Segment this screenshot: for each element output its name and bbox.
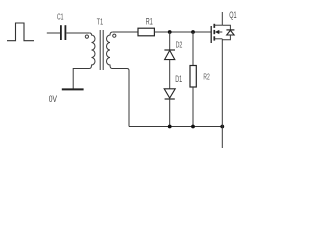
svg-text:R2: R2 bbox=[203, 72, 209, 82]
wire R1 to gate node bbox=[154, 31, 211, 33]
bottom rail bbox=[129, 126, 222, 128]
transformer T1 core bbox=[99, 30, 101, 70]
node junction D2 bbox=[168, 30, 172, 34]
body diode top bracket bbox=[222, 25, 230, 30]
rail junction R2 bbox=[191, 125, 195, 129]
svg-text:C1: C1 bbox=[57, 11, 64, 21]
diode D2 bbox=[164, 50, 175, 60]
wire D1 to rail bbox=[169, 99, 171, 127]
node junction R2 bbox=[191, 30, 195, 34]
capacitor C1 bbox=[61, 25, 66, 40]
resistor R2 bbox=[190, 66, 196, 88]
svg-text:D1: D1 bbox=[175, 74, 182, 84]
mosfet Q1 arrow bbox=[215, 30, 219, 34]
rail junction D1 bbox=[168, 125, 172, 129]
svg-text:Q1: Q1 bbox=[229, 10, 236, 20]
wire T1 secondary to R1 bbox=[113, 31, 138, 33]
resistor R1 bbox=[138, 28, 154, 36]
transformer T1 secondary winding bbox=[107, 32, 129, 127]
body diode bbox=[226, 30, 234, 35]
svg-text:R1: R1 bbox=[146, 16, 153, 26]
body diode bottom bracket bbox=[222, 35, 230, 40]
wire C1 to T1 primary bbox=[66, 32, 90, 34]
svg-text:0V: 0V bbox=[49, 94, 57, 104]
phase dot primary bbox=[85, 35, 88, 38]
drain lead bbox=[221, 12, 223, 25]
mosfet Q1 bottom stub bbox=[214, 38, 222, 40]
transformer T1 primary winding bbox=[73, 33, 95, 89]
source lead bbox=[221, 39, 223, 148]
svg-text:T1: T1 bbox=[97, 16, 103, 26]
mosfet Q1 source stub with arrow bbox=[219, 31, 223, 33]
wire R2 to rail bbox=[192, 87, 194, 127]
diode D1 bbox=[164, 89, 175, 99]
wire D2 to D1 bbox=[169, 60, 171, 89]
wire to D2 bbox=[169, 32, 171, 50]
mosfet Q1 gate plate bbox=[210, 26, 212, 43]
pulse waveform source bbox=[7, 23, 34, 41]
mosfet Q1 channel bars bbox=[213, 24, 215, 41]
phase dot secondary bbox=[113, 34, 116, 37]
ground bbox=[62, 88, 84, 90]
svg-text:D2: D2 bbox=[176, 39, 183, 49]
rail junction source bbox=[220, 125, 224, 129]
wire node to R2 bbox=[192, 32, 194, 66]
wire input to C1 bbox=[47, 32, 60, 34]
mosfet Q1 drain stub bbox=[214, 24, 222, 26]
